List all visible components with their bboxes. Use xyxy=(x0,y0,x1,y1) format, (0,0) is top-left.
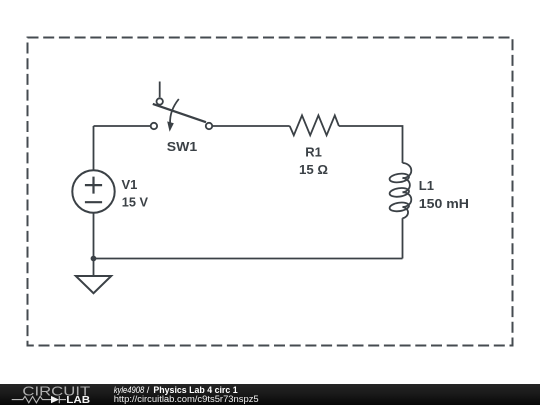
svg-text:150 mH: 150 mH xyxy=(419,196,469,211)
svg-text:LAB: LAB xyxy=(66,395,90,405)
svg-text:15 V: 15 V xyxy=(122,195,149,210)
svg-text:http://circuitlab.com/c9ts5r73: http://circuitlab.com/c9ts5r73nspz5 xyxy=(114,394,259,405)
svg-text:15 Ω: 15 Ω xyxy=(299,162,328,177)
svg-text:R1: R1 xyxy=(305,145,322,160)
svg-text:L1: L1 xyxy=(419,178,434,193)
svg-text:SW1: SW1 xyxy=(167,139,197,154)
svg-text:V1: V1 xyxy=(122,177,138,192)
